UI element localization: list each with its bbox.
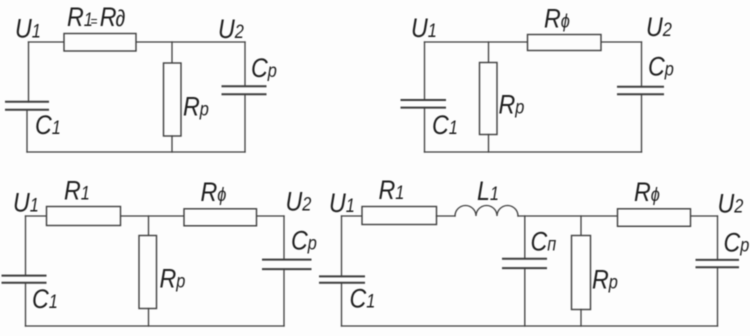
value label Rp (circuit 3) bbox=[160, 264, 186, 294]
node U2 label (circuit 1) bbox=[218, 14, 244, 44]
svg-text:Cп: Cп bbox=[531, 227, 557, 257]
circuit 2: wire from Rp to bottom rail bbox=[488, 135, 490, 153]
svg-text:C1: C1 bbox=[32, 284, 58, 314]
capacitor Cp (circuit 3) bbox=[263, 260, 311, 270]
circuit 1: wire from Cp to bottom rail bbox=[244, 94, 246, 152]
node U2 label (circuit 2) bbox=[646, 12, 672, 42]
resistor Rp (circuit 2) bbox=[480, 63, 498, 135]
svg-text:Rр: Rр bbox=[592, 265, 618, 295]
value label R1=Rd (circuit 1) bbox=[67, 2, 126, 32]
svg-text:U1: U1 bbox=[411, 13, 437, 43]
svg-text:C1: C1 bbox=[432, 110, 458, 140]
svg-text:Rр: Rр bbox=[499, 90, 525, 120]
value label Rp (circuit 4) bbox=[592, 265, 618, 295]
circuit 4: right vertical wire from U2 node down to Cp bbox=[717, 216, 719, 260]
circuit 3: wire from Rp to bottom rail bbox=[148, 309, 150, 327]
svg-text:L1: L1 bbox=[477, 176, 499, 206]
node U1 label (circuit 4) bbox=[329, 188, 355, 218]
value label R1 (circuit 4) bbox=[379, 175, 405, 205]
circuit 3: bottom rail wire bbox=[26, 325, 285, 327]
value label Cpi (circuit 4) bbox=[531, 227, 557, 257]
circuit 1: bottom rail wire bbox=[27, 151, 245, 153]
circuit 3: left vertical wire from U1 node down to C1 bbox=[25, 216, 27, 276]
circuit 4: wire from R1 to L1 bbox=[437, 215, 456, 217]
circuit 1: wire from C1 to bottom rail bbox=[26, 110, 28, 152]
svg-text:U1: U1 bbox=[15, 14, 41, 44]
resistor R1 (circuit 3) bbox=[47, 207, 121, 226]
node U2 label (circuit 4) bbox=[718, 189, 744, 219]
resistor Rf (circuit 2) bbox=[528, 35, 602, 51]
node U1 label (circuit 1) bbox=[15, 14, 41, 44]
capacitor C1 (circuit 4) bbox=[320, 276, 364, 282]
value label R1 (circuit 3) bbox=[64, 176, 90, 206]
resistor R1 (circuit 4) bbox=[362, 207, 437, 225]
circuit 4: wire from L1 to node with Cp1 branch and Rf bbox=[518, 215, 718, 217]
svg-text:Cр: Cр bbox=[251, 53, 277, 83]
circuit 3: right vertical wire from U2 node down to Cp bbox=[283, 216, 285, 260]
circuit 4: wire from Rp to bottom rail bbox=[580, 310, 582, 327]
circuit 1 (top-left): top wire U1 to U2 bbox=[29, 41, 246, 43]
svg-text:Rр: Rр bbox=[183, 92, 209, 122]
svg-text:R1= R∂: R1= R∂ bbox=[67, 2, 126, 32]
circuit 2: wire from C1 to bottom rail bbox=[424, 108, 426, 152]
svg-text:C1: C1 bbox=[350, 284, 376, 314]
svg-text:U2: U2 bbox=[646, 12, 672, 42]
svg-text:Rр: Rр bbox=[160, 264, 186, 294]
svg-text:U1: U1 bbox=[13, 188, 39, 218]
value label Rf (circuit 2) bbox=[544, 4, 570, 34]
circuit 4: wire from Cpi to bottom rail bbox=[524, 268, 526, 326]
node U1 label (circuit 2) bbox=[411, 13, 437, 43]
value label Rf (circuit 3) bbox=[201, 177, 227, 207]
resistor Rf (circuit 4) bbox=[618, 209, 691, 227]
svg-text:U2: U2 bbox=[218, 14, 244, 44]
circuit 4: wire from C1 to bottom rail bbox=[341, 283, 343, 326]
value label Rp (circuit 2) bbox=[499, 90, 525, 120]
circuit 4: wire from top node down to Rp bbox=[580, 216, 582, 236]
svg-text:C1: C1 bbox=[35, 110, 61, 140]
value label Cp (circuit 3) bbox=[291, 226, 317, 256]
value label Cp (circuit 1) bbox=[251, 53, 277, 83]
circuit 1: wire from top node down to Rp bbox=[171, 42, 173, 63]
svg-text:Rϕ: Rϕ bbox=[544, 4, 570, 34]
capacitor Cp (circuit 1) bbox=[223, 86, 266, 94]
circuit 2: left vertical wire from U1 node down to C1 bbox=[424, 42, 426, 100]
svg-text:Cр: Cр bbox=[291, 226, 317, 256]
inductor L1 (circuit 4) bbox=[455, 206, 518, 217]
circuit 3: wire from top node down to Rp bbox=[148, 216, 150, 236]
value label Cp (circuit 2) bbox=[648, 52, 674, 82]
circuit 1: right vertical wire from U2 node down to Cp bbox=[244, 42, 246, 86]
circuit 2: wire from top node down to Rp bbox=[488, 42, 490, 63]
circuit 3: wire from Cp to bottom rail bbox=[283, 269, 285, 326]
resistor Rp (circuit 1) bbox=[164, 63, 182, 136]
circuit 2: bottom rail wire bbox=[425, 151, 642, 153]
svg-text:Rϕ: Rϕ bbox=[201, 177, 227, 207]
svg-text:U2: U2 bbox=[286, 187, 312, 217]
capacitor Cpi (circuit 4) bbox=[503, 259, 546, 268]
value label L1 (circuit 4) bbox=[477, 176, 499, 206]
circuit 4: bottom rail wire bbox=[342, 325, 718, 327]
value label C1 (circuit 3) bbox=[32, 284, 58, 314]
node U1 label (circuit 3) bbox=[13, 188, 39, 218]
resistor Rf (circuit 3) bbox=[184, 209, 257, 226]
capacitor C1 (circuit 1) bbox=[6, 102, 48, 110]
svg-text:U1: U1 bbox=[329, 188, 355, 218]
capacitor C1 (circuit 2) bbox=[402, 100, 446, 108]
circuit 4 (bottom-right): top wire left segment U1 to R1 bbox=[342, 215, 363, 217]
svg-text:R1: R1 bbox=[64, 176, 90, 206]
circuit 3 (bottom-left): top wire U1 to U2 bbox=[26, 215, 285, 217]
circuit 3: wire from C1 to bottom rail bbox=[25, 283, 27, 326]
capacitor C1 (circuit 3) bbox=[3, 276, 46, 283]
value label C1 (circuit 2) bbox=[432, 110, 458, 140]
value label Cp (circuit 4) bbox=[724, 228, 750, 258]
circuit 1: wire from Rp to bottom rail bbox=[171, 136, 173, 152]
svg-text:Cр: Cр bbox=[724, 228, 750, 258]
value label C1 (circuit 4) bbox=[350, 284, 376, 314]
circuit 4: wire from Cp to bottom rail bbox=[717, 267, 719, 326]
capacitor Cp (circuit 2) bbox=[618, 87, 663, 95]
resistor Rp (circuit 3) bbox=[139, 236, 157, 309]
circuit 2: right vertical wire from U2 node down to Cp bbox=[641, 42, 643, 87]
value label Rp (circuit 1) bbox=[183, 92, 209, 122]
capacitor Cp (circuit 4) bbox=[697, 260, 739, 267]
circuit 2: wire from Cp to bottom rail bbox=[641, 94, 643, 152]
circuit 1: left vertical wire from U1 node down to C1 bbox=[28, 42, 30, 102]
resistor R1=Rd (circuit 1) bbox=[64, 34, 136, 52]
resistor Rp (circuit 4) bbox=[572, 236, 591, 310]
circuit 4: wire from node down to capacitor Cpi bbox=[524, 216, 526, 259]
value label C1 (circuit 1) bbox=[35, 110, 61, 140]
svg-text:Rϕ: Rϕ bbox=[634, 177, 660, 207]
circuit 2 (top-right): top wire U1 to U2 bbox=[425, 41, 642, 43]
value label Rf (circuit 4) bbox=[634, 177, 660, 207]
node U2 label (circuit 3) bbox=[286, 187, 312, 217]
svg-text:U2: U2 bbox=[718, 189, 744, 219]
circuit 4: left vertical wire from U1 node down to C1 bbox=[341, 216, 343, 276]
svg-text:Cр: Cр bbox=[648, 52, 674, 82]
svg-text:R1: R1 bbox=[379, 175, 405, 205]
